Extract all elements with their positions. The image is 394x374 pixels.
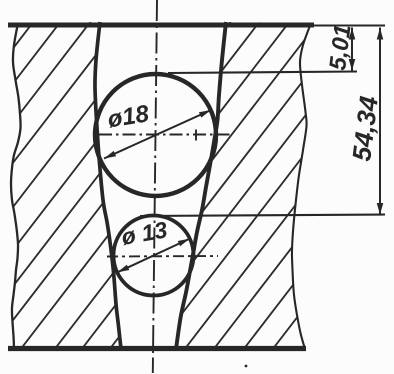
right break line (wavy edge) [292,23,311,349]
right taper edge [176,22,226,349]
ball D18 (large circle) [95,74,216,196]
diameter dimension line D13 [117,239,190,273]
dimension line 5,01 [351,28,353,72]
left break line (wavy edge) [11,23,21,349]
speck dot below bottom line [245,365,248,368]
dimension line 54,34 [379,28,381,215]
center tick on large ball centerline [195,130,197,141]
top surface extension line [314,24,385,26]
left taper edge [95,22,121,349]
svg-text:5,01: 5,01 [324,23,355,72]
vertical centerline [153,0,157,373]
horizontal centerline of large ball [99,134,231,136]
bottom surface line [8,346,306,351]
ball D13 (small circle) [114,216,194,296]
diameter dimension line D18 [104,110,211,159]
extension line over top of small ball [140,215,385,217]
extension line over top of large ball [168,72,357,74]
horizontal centerline of small ball [107,255,218,258]
top surface line [8,23,314,28]
